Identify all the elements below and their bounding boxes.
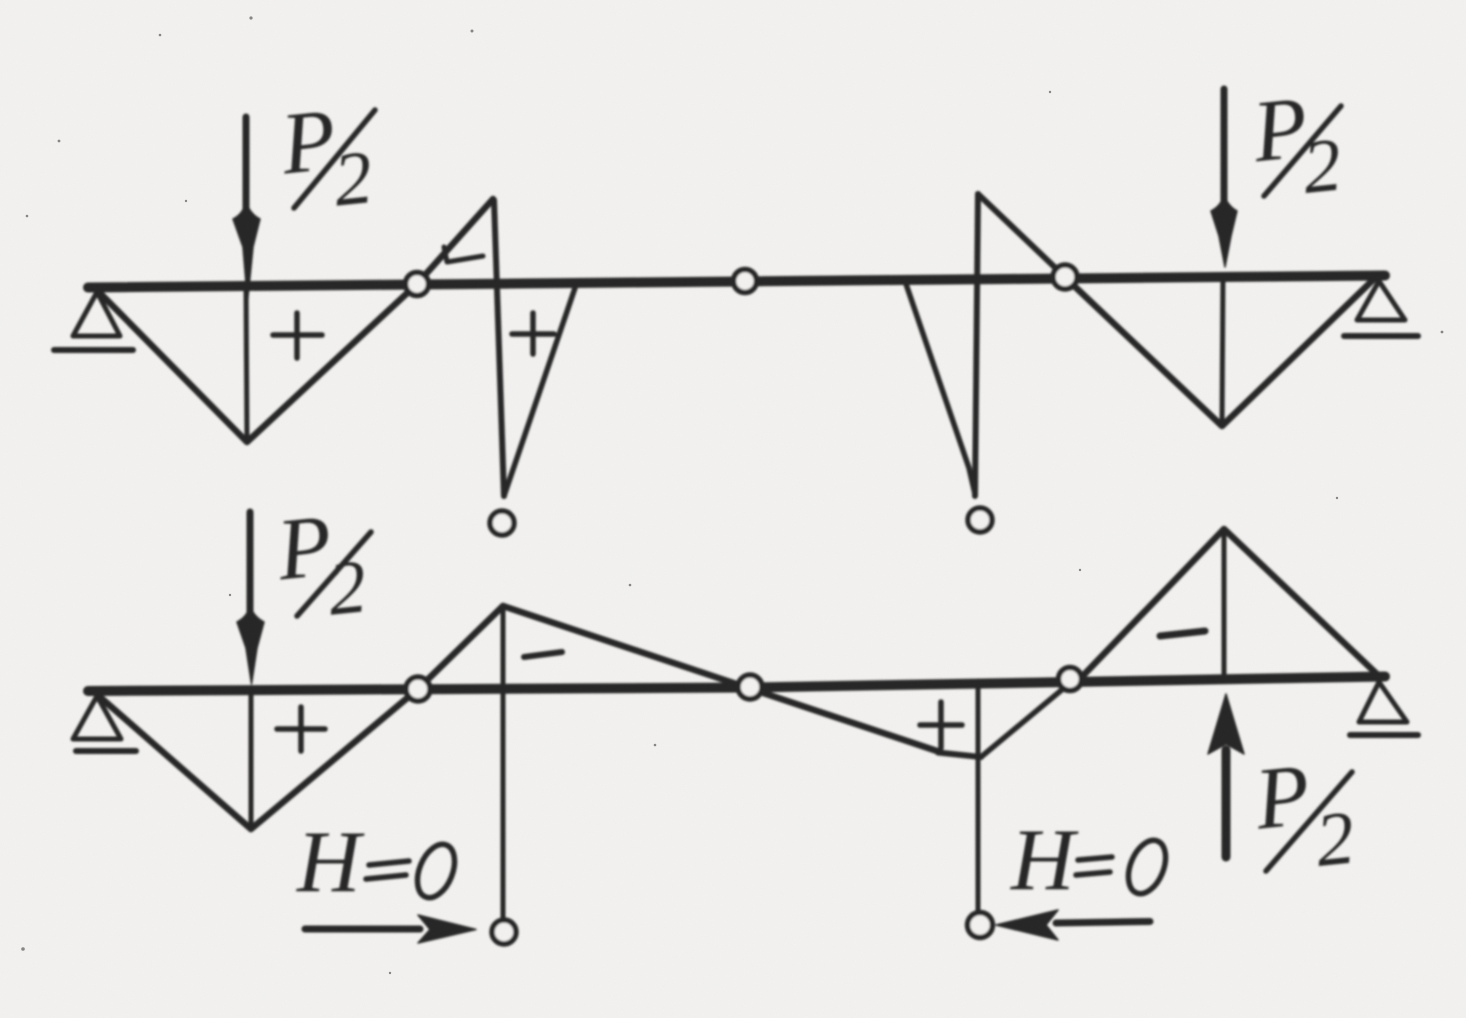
paper grain overlay	[0, 0, 1, 1]
ordinate vertical (bottom right peak)	[1222, 530, 1227, 678]
label H=0 (bottom right): zero	[1121, 835, 1173, 899]
hanging circle (bottom left)	[492, 920, 516, 944]
beam (top span)	[88, 276, 1385, 288]
H=0 right arrow (bottom left region) shaft	[305, 926, 420, 933]
moment closing diagonal (top left)	[504, 288, 575, 496]
load arrow P/2 (top right) shaft	[1221, 89, 1228, 202]
left pin support (top)	[73, 292, 120, 336]
beam (bottom span)	[88, 677, 1385, 692]
hanging circle (bottom right)	[968, 913, 993, 938]
plus sign (top left big triangle)	[273, 313, 322, 358]
peak diagonal to hinge (top right)	[978, 194, 1065, 277]
moment diagram polyline left (bottom)	[100, 606, 503, 829]
moment vertical hanger (bottom left)	[501, 607, 506, 920]
load ordinate line (bottom left)	[249, 690, 254, 829]
hinge circle (top, x=1065)	[1053, 265, 1077, 289]
moment diagonal tail (bottom)	[938, 753, 981, 758]
minus sign (bottom middle triangle)	[524, 652, 562, 657]
moment vertical (top right peak to drop)	[975, 194, 978, 496]
label H=0 (bottom left): zero	[410, 839, 462, 903]
long moment diagonal (bottom)	[503, 606, 940, 752]
H=0 left arrow head	[996, 910, 1058, 940]
moment vertical hanger (bottom right)	[976, 681, 981, 913]
hinge circle (bottom middle)	[738, 675, 762, 699]
label P/2 (top right): slash	[1264, 106, 1341, 196]
load ordinate line (top left)	[246, 287, 247, 442]
H=0 left arrow (bottom right region) shaft	[1056, 922, 1150, 924]
right triangle above beam (bottom)	[1075, 529, 1380, 684]
hanging circle (top right, below)	[968, 508, 992, 532]
H=0 right arrow head	[418, 915, 476, 943]
load arrow P/2 (top left) shaft	[243, 117, 250, 210]
right pin support (bottom)	[1359, 682, 1407, 722]
plus sign (bottom right small triangle)	[920, 702, 962, 748]
right support ground line (bottom)	[1350, 732, 1418, 738]
label P/2 (top left): slash	[294, 110, 375, 208]
load arrow P/2 (top right) head	[1211, 195, 1237, 267]
hinge circle (bottom, x=418)	[406, 677, 430, 701]
plus sign (top narrow triangle)	[512, 313, 554, 354]
right support ground line (top)	[1344, 333, 1418, 339]
label P/2 (bottom left): slash	[297, 532, 371, 616]
moment diagram polyline left (top)	[100, 199, 493, 442]
reaction arrow P/2 up (bottom right) shaft	[1222, 750, 1231, 857]
plus sign (bottom left big triangle)	[277, 707, 325, 751]
left support ground line (bottom)	[76, 748, 136, 754]
reaction arrow P/2 up (bottom right) head	[1208, 694, 1244, 754]
minus sign (top small triangle above beam)	[444, 247, 483, 262]
hinge circle (top middle)	[734, 270, 757, 293]
hanging circle (top left, below)	[490, 511, 514, 535]
big right triangle diagonals (top)	[1070, 278, 1375, 426]
moment vertical at hinge drop (top left)	[494, 200, 504, 496]
label H=0 (bottom right): equals	[1076, 857, 1112, 875]
load arrow P/2 (top left) head	[233, 202, 260, 302]
load ordinate line (top right)	[1222, 275, 1223, 426]
small diagonal to hinge (bottom right)	[981, 688, 1064, 757]
left support ground line (top)	[54, 347, 133, 353]
minus sign (bottom right triangle)	[1160, 631, 1205, 636]
label H=0 (bottom left): equals	[366, 861, 409, 879]
hinge circle (top, x=417)	[406, 273, 429, 296]
left pin support (bottom)	[73, 696, 121, 739]
load arrow P/2 (bottom left) head	[237, 606, 264, 684]
hinge circle (bottom, x=1070)	[1059, 668, 1082, 691]
load arrow P/2 (bottom left) shaft	[247, 512, 254, 612]
label P/2 (bottom right): slash	[1266, 772, 1352, 871]
moment diagonal right narrow triangle (top)	[906, 284, 975, 494]
right pin support (top)	[1357, 281, 1405, 320]
